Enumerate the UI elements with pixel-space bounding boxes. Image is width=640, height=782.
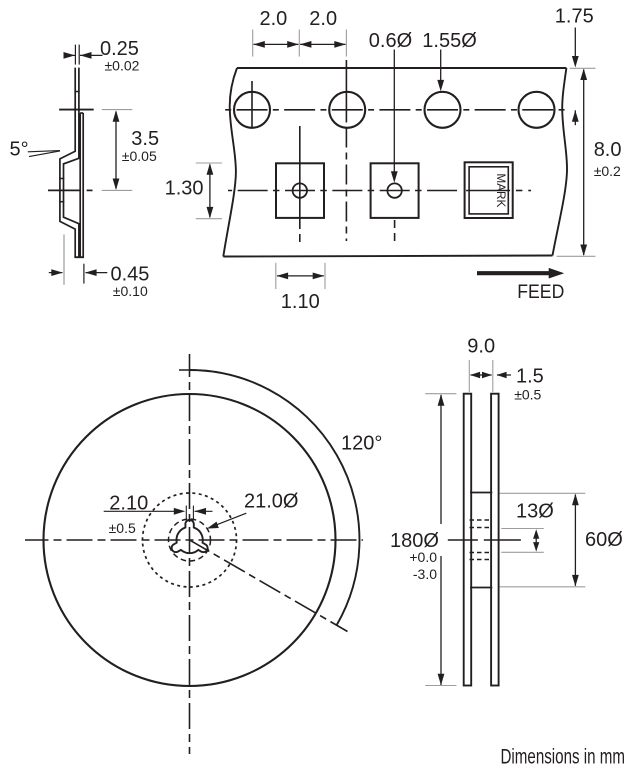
hub hidden line 1: [470, 519, 492, 521]
carrier tape side profile - inner line: [64, 68, 79, 258]
21.0 leader with arrow: [214, 513, 246, 526]
vertical centerline sprocket 2 dashed: [345, 116, 347, 242]
pocket row centerline dash end: [528, 190, 531, 192]
reel horizontal centerline: [25, 539, 363, 541]
pocket 1 vertical centerline: [299, 126, 301, 229]
svg-text:0.6Ø: 0.6Ø: [369, 30, 412, 52]
dimension 8.0 line with arrows: [583, 70, 585, 256]
carrier tape back layer top cap: [80, 112, 83, 114]
svg-text:21.0Ø: 21.0Ø: [244, 491, 298, 513]
svg-text:9.0: 9.0: [467, 336, 495, 358]
vertical centerline through sprocket 2: [345, 60, 347, 116]
dimension 2.0 extension line 1: [252, 30, 254, 57]
pocket 1 vertical centerline dashes: [299, 234, 301, 242]
sprocket hole 4: [519, 92, 555, 128]
dimension 2.0 extension line 3: [345, 30, 347, 57]
svg-text:2.0: 2.0: [309, 8, 337, 30]
dimension 3.5 line with arrows: [115, 112, 117, 189]
tape outline bottom edge: [223, 256, 552, 257]
svg-text:±0.05: ±0.05: [122, 148, 157, 164]
dimension 3.5 extension lower: [102, 189, 133, 191]
120 degree radial dash-dot line: [190, 540, 347, 631]
pocket 2 vertical centerline dashes: [394, 220, 396, 242]
svg-text:±0.10: ±0.10: [113, 283, 148, 299]
dimension 60 extension top: [499, 492, 585, 494]
dimension 2.0 second arrows: [300, 43, 346, 45]
dimension 1.75 lower arrow: [574, 110, 576, 125]
svg-text:5°: 5°: [10, 139, 29, 161]
dimension 13 extension bottom: [501, 551, 544, 553]
hub hidden line 2: [470, 527, 492, 529]
svg-text:MARK: MARK: [494, 173, 506, 207]
reel 21 diameter dashed circle: [169, 519, 211, 561]
svg-text:0.25: 0.25: [100, 38, 139, 60]
dimension 0.45 extension black: [83, 264, 85, 284]
reel side right flange: [491, 394, 499, 686]
svg-text:60Ø: 60Ø: [585, 529, 623, 551]
dimension 180 line lower: [440, 556, 442, 685]
side view 3.5 reference tick: [59, 109, 94, 111]
dimension 1.30 extension upper: [196, 162, 222, 164]
sprocket 1 vertical tick: [251, 81, 253, 128]
carrier tape back layer right line: [82, 113, 84, 257]
svg-text:1.30: 1.30: [165, 178, 204, 200]
120 degree arc: [190, 370, 360, 625]
svg-text:+0.0: +0.0: [409, 549, 437, 565]
pocket row centerline through MARK: [466, 190, 510, 192]
svg-text:Dimensions in mm: Dimensions in mm: [501, 746, 626, 769]
svg-text:±0.5: ±0.5: [109, 520, 136, 536]
dimension 2.0 first arrows: [254, 43, 299, 45]
FEED arrow: [477, 271, 550, 275]
dimension 180 line upper: [440, 395, 442, 524]
dimension 180 extension top: [425, 393, 456, 395]
svg-text:8.0: 8.0: [594, 139, 622, 161]
svg-text:3.5: 3.5: [131, 128, 159, 150]
reel outer circle: [44, 394, 336, 686]
seam tick on pocket wall lower: [59, 201, 64, 203]
reel side left flange: [464, 394, 472, 686]
hub hidden line 4: [470, 559, 492, 561]
dimension 0.45 left arrow: [49, 272, 63, 274]
dimension 0.25 extension line left: [74, 45, 76, 65]
carrier tape back layer left line: [79, 113, 81, 257]
svg-text:-3.0: -3.0: [413, 566, 437, 582]
side view horizontal centerline: [48, 189, 81, 191]
pocket 2 center hole: [387, 183, 401, 197]
dimension 0.45 extension gray: [63, 234, 65, 284]
hub top line: [470, 492, 492, 494]
pocket 1 square: [276, 163, 324, 218]
dimension 60 extension bottom: [499, 586, 585, 588]
sprocket row centerline: [223, 109, 569, 111]
reel side centerline left: [448, 539, 478, 541]
tape outline top edge: [237, 67, 566, 69]
dimension 9.0 extension left: [468, 360, 470, 392]
dimension 13 arrows: [535, 534, 537, 547]
dimension 1.10 arrows: [277, 275, 324, 277]
side view centerline dash: [87, 189, 93, 191]
seam tick on pocket wall upper: [59, 178, 64, 180]
dimension 9.0 extension right: [492, 360, 494, 392]
5 degree leader line upper: [28, 151, 60, 152]
MARK pocket outer square: [465, 162, 513, 218]
sprocket hole 2: [329, 92, 365, 128]
sprocket hole 3: [425, 92, 461, 128]
dimension 1.30 extension lower: [196, 218, 222, 220]
dimension 0.25 right arrow: [80, 54, 103, 56]
dimension 8.0 bottom extension: [557, 255, 596, 257]
dimension 1.75 upper arrow: [574, 28, 576, 58]
reel spindle hole trefoil: [172, 520, 208, 553]
hub hidden line 3: [470, 552, 492, 554]
svg-text:±0.5: ±0.5: [514, 387, 541, 403]
dimension 1.30 line with arrows: [209, 165, 211, 218]
dimension 3.5 extension upper: [102, 109, 133, 111]
dimension 1.5 arrow: [497, 374, 511, 376]
1.55 leader line with arrow: [440, 50, 442, 82]
2.10 right arrow: [195, 510, 213, 512]
pocket 2 square: [371, 163, 419, 218]
svg-text:13Ø: 13Ø: [516, 501, 554, 523]
reel vertical centerline: [189, 354, 191, 754]
reel side centerline right: [484, 539, 521, 541]
svg-text:1.75: 1.75: [555, 6, 594, 28]
svg-text:2.0: 2.0: [260, 8, 288, 30]
svg-text:FEED: FEED: [517, 281, 564, 303]
2.10 underline arrow: [104, 510, 175, 512]
reel hub dotted circle: [143, 493, 237, 587]
svg-text:1.5: 1.5: [516, 366, 544, 388]
arc start tick: [179, 369, 197, 371]
pocket 1 center hole: [293, 183, 307, 197]
dimension 0.25 left arrow: [65, 54, 76, 56]
dimension 60 line with arrows: [574, 495, 576, 586]
svg-text:±0.2: ±0.2: [594, 163, 621, 179]
sprocket hole 1: [234, 92, 270, 128]
carrier tape side profile - cover tape upper strip outer line: [60, 68, 75, 258]
0.6 leader line with arrow: [393, 50, 395, 173]
seam tick on upper strip: [74, 91, 79, 93]
pocket row centerline dash right of MARK: [516, 190, 523, 192]
dimension 0.25 extension line right: [78, 45, 80, 65]
dimension 13 extension top: [501, 528, 544, 530]
dimension 180 extension bottom: [425, 685, 456, 687]
2.10 extension tick right: [192, 506, 194, 521]
svg-text:±0.02: ±0.02: [105, 58, 140, 74]
dimension 1.10 extension right: [324, 263, 326, 289]
2.10 extension tick left: [185, 506, 187, 521]
tape outline left torn edge: [223, 68, 237, 257]
MARK pocket inner square: [469, 167, 508, 214]
hub bottom line: [470, 587, 492, 589]
tape outline right torn edge: [553, 68, 568, 256]
svg-text:120°: 120°: [341, 432, 382, 454]
pocket row centerline: [228, 190, 461, 192]
5 degree leader line lower: [29, 151, 60, 157]
svg-text:1.55Ø: 1.55Ø: [422, 30, 476, 52]
dimension 8.0 top extension: [570, 67, 596, 69]
dimension 0.45 right arrow: [86, 272, 108, 274]
dimension 1.10 extension left: [275, 263, 277, 289]
dimension 9.0 arrows: [471, 374, 492, 376]
dimension 2.0 extension line 2: [298, 30, 300, 57]
svg-text:1.10: 1.10: [281, 291, 320, 313]
carrier tape bottom cap: [74, 256, 84, 258]
